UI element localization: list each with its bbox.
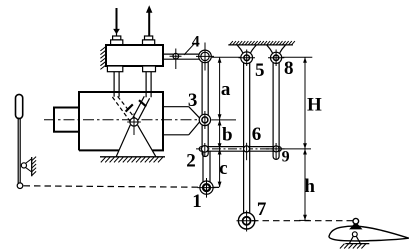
dashed arm cap xyxy=(126,104,133,111)
svg-text:a: a xyxy=(221,79,231,100)
up arrow from right valve xyxy=(147,6,152,36)
bracket 5 xyxy=(237,45,256,53)
svg-text:H: H xyxy=(307,95,322,116)
right pedestal below block xyxy=(143,66,156,72)
hinge bracket xyxy=(349,236,360,243)
pin 3 xyxy=(199,114,210,125)
svg-text:4: 4 xyxy=(192,34,200,51)
left pedestal below block xyxy=(107,66,122,72)
ground under airfoil xyxy=(345,243,369,245)
wall hatching left of valve block xyxy=(100,47,106,70)
dashed control rod to link 1 xyxy=(24,186,223,188)
pin 8 xyxy=(271,52,282,63)
crank hub pin xyxy=(130,118,138,126)
link 4: rod from valve block to pin 4 xyxy=(163,54,199,59)
dashed crank arm (hidden) xyxy=(112,96,134,121)
ground under engine xyxy=(100,156,165,158)
stick bottom pin xyxy=(17,183,23,189)
svg-text:2: 2 xyxy=(186,150,196,171)
ceiling hatching xyxy=(230,41,295,45)
dimension b xyxy=(219,120,221,149)
dimension H xyxy=(304,57,306,149)
extension line pin3 level xyxy=(211,119,236,121)
stick wall bracket xyxy=(25,159,32,172)
svg-text:7: 7 xyxy=(257,199,267,220)
svg-text:c: c xyxy=(219,158,227,179)
svg-text:h: h xyxy=(304,176,315,197)
hinge pin xyxy=(352,232,357,237)
svg-text:3: 3 xyxy=(188,90,198,111)
extension line bar level xyxy=(266,148,311,150)
centerline xyxy=(44,119,213,121)
stick pivot pin xyxy=(21,163,26,168)
valve block xyxy=(106,45,163,66)
svg-text:b: b xyxy=(222,125,233,146)
left valve cap xyxy=(111,36,123,45)
label 4 leader xyxy=(184,44,194,55)
svg-text:6: 6 xyxy=(252,124,262,145)
vertical link 4-3-2 xyxy=(202,61,208,157)
engine body xyxy=(79,92,163,150)
link 8-9 xyxy=(273,62,279,159)
bar centerline xyxy=(196,148,285,150)
dimension h xyxy=(304,149,306,221)
stick shaft xyxy=(18,118,20,186)
extension tick bottom xyxy=(299,219,310,221)
pin 6 xyxy=(244,146,250,152)
stick handle xyxy=(16,94,23,118)
svg-text:1: 1 xyxy=(192,191,202,212)
pin 7 xyxy=(238,213,254,229)
svg-text:5: 5 xyxy=(255,60,265,81)
solid arm cap xyxy=(139,100,146,106)
dashed rod pin7 to horn xyxy=(252,220,353,222)
pin 1 xyxy=(200,181,213,194)
link 1 xyxy=(203,151,210,187)
right push rod xyxy=(146,72,151,97)
pin 4 xyxy=(199,50,212,63)
left push rod xyxy=(114,72,119,97)
pin 9 xyxy=(273,146,279,152)
fork pin xyxy=(173,53,179,59)
control horn xyxy=(350,223,361,229)
left shaft box xyxy=(54,108,79,132)
push rod stubs inside body xyxy=(114,92,151,97)
cone to pin 3 xyxy=(163,107,199,135)
svg-text:9: 9 xyxy=(282,149,290,166)
bar 2-6-9 xyxy=(199,147,281,152)
solid crank arm xyxy=(133,96,150,120)
extension line pin4 level xyxy=(212,56,241,58)
down arrow into left valve xyxy=(114,8,119,36)
pin 2 xyxy=(202,146,209,153)
right valve cap xyxy=(143,36,155,45)
pin 5 xyxy=(241,52,253,64)
bracket 8 xyxy=(267,45,286,53)
extension line pin8 level xyxy=(282,56,312,58)
svg-text:8: 8 xyxy=(284,58,294,79)
horn pin xyxy=(353,218,359,224)
airfoil profile xyxy=(329,226,409,241)
ceiling line xyxy=(228,44,293,46)
dimension a xyxy=(219,57,221,120)
dimension c xyxy=(219,149,221,187)
link 5-7 xyxy=(244,62,250,214)
support triangle xyxy=(116,125,156,157)
